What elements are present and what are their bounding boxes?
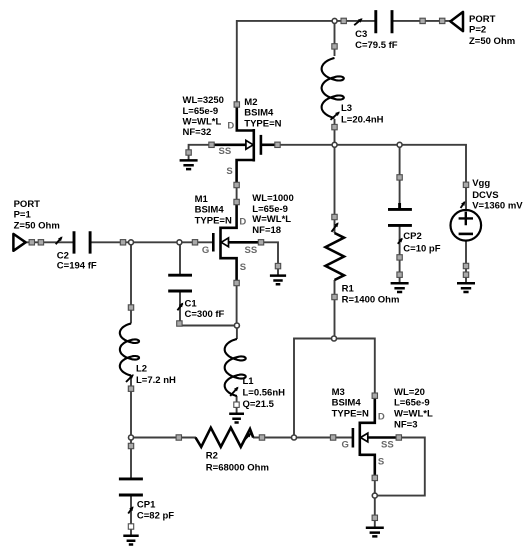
pin L1 ground xyxy=(234,402,239,407)
svg-text:R2: R2 xyxy=(206,450,218,461)
node M3 source / SS xyxy=(372,493,377,498)
inductor L1 xyxy=(225,339,246,396)
svg-text:M1: M1 xyxy=(195,194,209,205)
tuner arrow L2 xyxy=(126,375,133,382)
pin M1 source pin xyxy=(234,280,239,285)
svg-text:C1: C1 xyxy=(185,298,198,309)
pin M2 source pin xyxy=(234,182,239,187)
pin C1 pin 2 xyxy=(177,321,182,326)
pin port 2 pin xyxy=(440,18,445,23)
wire R1 bottom feed xyxy=(334,280,336,339)
svg-text:SS: SS xyxy=(381,440,394,451)
wire M3 source chain xyxy=(374,478,376,496)
svg-text:P=2: P=2 xyxy=(469,25,486,36)
tuner arrow C3 xyxy=(354,19,362,25)
inductor L3 xyxy=(322,58,344,118)
svg-text:L=65e-9: L=65e-9 xyxy=(394,398,430,409)
svg-text:NF=32: NF=32 xyxy=(183,127,212,138)
svg-text:L=65e-9: L=65e-9 xyxy=(183,106,219,117)
node C1 / L1 / M1 source xyxy=(234,323,239,328)
svg-text:NF=3: NF=3 xyxy=(394,420,418,431)
wire M2 source to M1 drain xyxy=(236,185,238,202)
tuner arrow C2 xyxy=(56,237,62,244)
svg-text:Z=50 Ohm: Z=50 Ohm xyxy=(469,36,515,47)
svg-text:L1: L1 xyxy=(243,376,255,387)
wire R2 to M3 gate xyxy=(253,437,352,439)
svg-text:R=1400 Ohm: R=1400 Ohm xyxy=(342,294,400,305)
port P2 xyxy=(450,12,463,31)
ground M1 SS xyxy=(270,276,286,285)
pin C3 pin 2 wire xyxy=(420,18,425,23)
svg-text:L2: L2 xyxy=(136,364,147,375)
wire CP2 feed xyxy=(399,145,401,209)
node L2 branch xyxy=(129,240,134,245)
wire M1 SS to ground xyxy=(261,242,278,275)
tuner arrow C1 xyxy=(177,304,182,311)
pin M3 gate pin xyxy=(330,435,335,440)
wire R1 box right branch to M3 drain xyxy=(334,339,375,396)
tuner arrow R1 xyxy=(332,223,338,232)
svg-text:S: S xyxy=(378,456,384,467)
capacitor C2 xyxy=(74,231,90,253)
svg-text:CP1: CP1 xyxy=(137,499,156,510)
pin M1 gate pin xyxy=(192,240,197,245)
pin L3 pin 2 xyxy=(332,124,337,129)
pin M1 SS pin xyxy=(258,240,263,245)
node top rail / C3 xyxy=(332,18,337,23)
svg-text:BSIM4: BSIM4 xyxy=(195,205,225,216)
node C1 branch xyxy=(177,240,182,245)
pin L3 pin 1 xyxy=(332,44,337,49)
transistor M1 xyxy=(213,204,260,281)
pin M2 SS pin xyxy=(209,142,214,147)
svg-text:D: D xyxy=(378,412,385,423)
node R1 bottom xyxy=(332,336,337,341)
pin Vgg pin 1 xyxy=(463,182,468,187)
svg-text:L=0.56nH: L=0.56nH xyxy=(243,387,286,398)
svg-text:BSIM4: BSIM4 xyxy=(332,398,362,409)
resistor R1 xyxy=(326,233,345,280)
svg-text:V=1360 mV: V=1360 mV xyxy=(472,200,523,211)
node L2 / R2 / CP1 xyxy=(129,435,134,440)
pin CP2 pin 1 xyxy=(397,175,402,180)
svg-text:Q=21.5: Q=21.5 xyxy=(243,399,275,410)
tuner arrow L3 xyxy=(331,112,340,120)
svg-text:Z=50 Ohm: Z=50 Ohm xyxy=(14,221,60,232)
svg-text:DCVS: DCVS xyxy=(472,190,498,201)
svg-text:L3: L3 xyxy=(341,103,352,114)
ground M3 xyxy=(366,528,384,537)
wire C3 to port 2 xyxy=(392,20,450,22)
svg-text:L=7.2 nH: L=7.2 nH xyxy=(136,375,176,386)
ground Vgg xyxy=(457,283,475,292)
svg-text:WL=20: WL=20 xyxy=(394,387,425,398)
svg-text:PORT: PORT xyxy=(469,14,496,25)
transistor M3 xyxy=(353,398,398,476)
wire CP2 to ground xyxy=(399,226,401,284)
wire C2 to M1 gate xyxy=(90,241,212,243)
capacitor CP1 xyxy=(119,479,143,495)
wire bottom junction to R2 xyxy=(131,437,196,439)
pin M3 ground pin xyxy=(372,515,377,520)
svg-text:CP2: CP2 xyxy=(403,231,421,242)
svg-text:R1: R1 xyxy=(342,284,355,295)
capacitor C3 xyxy=(376,10,392,33)
svg-text:G: G xyxy=(342,440,349,451)
ground M2 SS xyxy=(180,160,198,169)
wire M3 source to ground xyxy=(374,496,376,528)
tuner arrow R2 xyxy=(244,434,251,441)
svg-text:BSIM4: BSIM4 xyxy=(244,108,274,119)
wire CP1 to ground xyxy=(130,496,132,536)
svg-text:W=WL*L: W=WL*L xyxy=(183,117,222,128)
transistor M2 xyxy=(213,107,276,183)
pin CP1 pin 1 xyxy=(128,443,133,448)
wire junction to L2 xyxy=(130,242,132,323)
pin R1 pin 2 xyxy=(332,294,337,299)
node CP2 branch xyxy=(397,142,402,147)
capacitor C1 xyxy=(168,275,192,291)
pin CP1 ground xyxy=(128,524,133,529)
wire junction to CP1 xyxy=(130,438,132,479)
wire M2 SS to ground xyxy=(189,145,212,160)
voltage source Vgg DCVS xyxy=(451,210,482,241)
svg-text:W=WL*L: W=WL*L xyxy=(394,409,433,420)
wire R1 box left branch to M3 gate node xyxy=(294,339,334,438)
tuner arrow Vgg xyxy=(461,202,465,208)
pin R2 pin 1 xyxy=(176,435,181,440)
svg-text:W=WL*L: W=WL*L xyxy=(252,214,291,225)
pin L2 pin 2 xyxy=(128,386,133,391)
svg-text:SS: SS xyxy=(245,245,258,256)
svg-text:C3: C3 xyxy=(355,29,367,40)
pin M2 SS ground pin xyxy=(186,150,191,155)
node M3 gate xyxy=(292,435,297,440)
wire C1 bottom to L1 junction xyxy=(180,292,237,326)
svg-text:C=82 pF: C=82 pF xyxy=(137,511,174,522)
wire port 1 to C2 xyxy=(26,241,74,243)
pin R2 pin 2 xyxy=(259,435,264,440)
tuner arrow CP1 xyxy=(128,507,133,513)
wire L3 bottom feed xyxy=(334,119,336,145)
tuner arrow CP2 xyxy=(398,239,402,244)
svg-text:Vgg: Vgg xyxy=(472,178,490,189)
ground L1 xyxy=(229,414,244,423)
wire M3 SS loop xyxy=(375,438,425,496)
tuner arrow L1 xyxy=(230,388,238,397)
pin M1 drain pin xyxy=(234,199,239,204)
pin C2 pin 2 wire xyxy=(120,240,125,245)
pin CP2 pin 2 xyxy=(397,255,402,260)
svg-text:S: S xyxy=(226,166,232,177)
pin port 1 wire pin xyxy=(38,240,43,245)
pin M3 source pin xyxy=(372,475,377,480)
wire Vgg to source circle xyxy=(465,185,467,211)
svg-text:NF=18: NF=18 xyxy=(252,225,281,236)
wire mid rail junction to Vgg corner xyxy=(335,145,466,185)
ground CP1 xyxy=(123,536,138,545)
wire L3 top feed xyxy=(334,21,336,56)
svg-text:D: D xyxy=(239,217,246,228)
wire R1 top feed xyxy=(334,145,336,233)
pin M2 drain pin xyxy=(234,102,239,107)
pin CP2 ground pin xyxy=(397,272,402,277)
pin M2 gate pin xyxy=(275,142,280,147)
svg-text:C=300 fF: C=300 fF xyxy=(185,309,225,320)
wire C1 top feed xyxy=(179,242,181,275)
svg-text:C=10 pF: C=10 pF xyxy=(403,243,440,254)
wire M2 gate to junction xyxy=(278,144,335,146)
svg-text:PORT: PORT xyxy=(14,199,41,210)
wire L1 bottom to ground xyxy=(236,396,238,414)
svg-text:TYPE=N: TYPE=N xyxy=(244,119,281,130)
svg-text:TYPE=N: TYPE=N xyxy=(332,409,369,420)
svg-text:WL=3250: WL=3250 xyxy=(183,95,224,106)
svg-text:SS: SS xyxy=(219,146,232,157)
svg-text:G: G xyxy=(202,245,209,256)
pin Vgg ground pin xyxy=(463,272,468,277)
wire top rail junction to C3 xyxy=(335,20,375,22)
pin M3 SS pin xyxy=(396,435,401,440)
node L3 / R1 xyxy=(332,142,337,147)
inductor L2 xyxy=(120,324,139,376)
wire L1 top feed xyxy=(236,326,238,340)
svg-text:S: S xyxy=(240,262,246,273)
wire M1 source chain xyxy=(236,283,238,326)
svg-text:M2: M2 xyxy=(244,97,257,108)
pin port 1 pin xyxy=(29,240,34,245)
svg-text:D: D xyxy=(227,121,234,132)
svg-text:TYPE=N: TYPE=N xyxy=(195,216,232,227)
ground CP2 xyxy=(391,283,409,292)
svg-text:C=194 fF: C=194 fF xyxy=(57,260,97,271)
svg-text:M3: M3 xyxy=(332,387,345,398)
pin R1 pin 1 xyxy=(332,214,337,219)
wire top rail from M2 drain to C3 junction xyxy=(237,21,335,105)
pin M1 SS ground pin xyxy=(275,263,280,268)
svg-text:L=20.4nH: L=20.4nH xyxy=(341,115,384,126)
pin C3 pin 1 xyxy=(341,18,346,23)
capacitor CP2 xyxy=(388,203,412,225)
pin Vgg pin 2 xyxy=(463,263,468,268)
pin M3 drain pin xyxy=(372,393,377,398)
svg-text:C=79.5 fF: C=79.5 fF xyxy=(355,40,398,51)
wire Vgg source to ground xyxy=(465,240,467,283)
svg-text:WL=1000: WL=1000 xyxy=(252,193,293,204)
svg-text:R=68000 Ohm: R=68000 Ohm xyxy=(206,463,269,474)
resistor R2 xyxy=(196,428,254,447)
svg-text:P=1: P=1 xyxy=(14,210,32,221)
pin L2 pin 1 xyxy=(128,305,133,310)
port P1 xyxy=(13,234,25,251)
wire L2 to bottom junction xyxy=(130,376,132,438)
